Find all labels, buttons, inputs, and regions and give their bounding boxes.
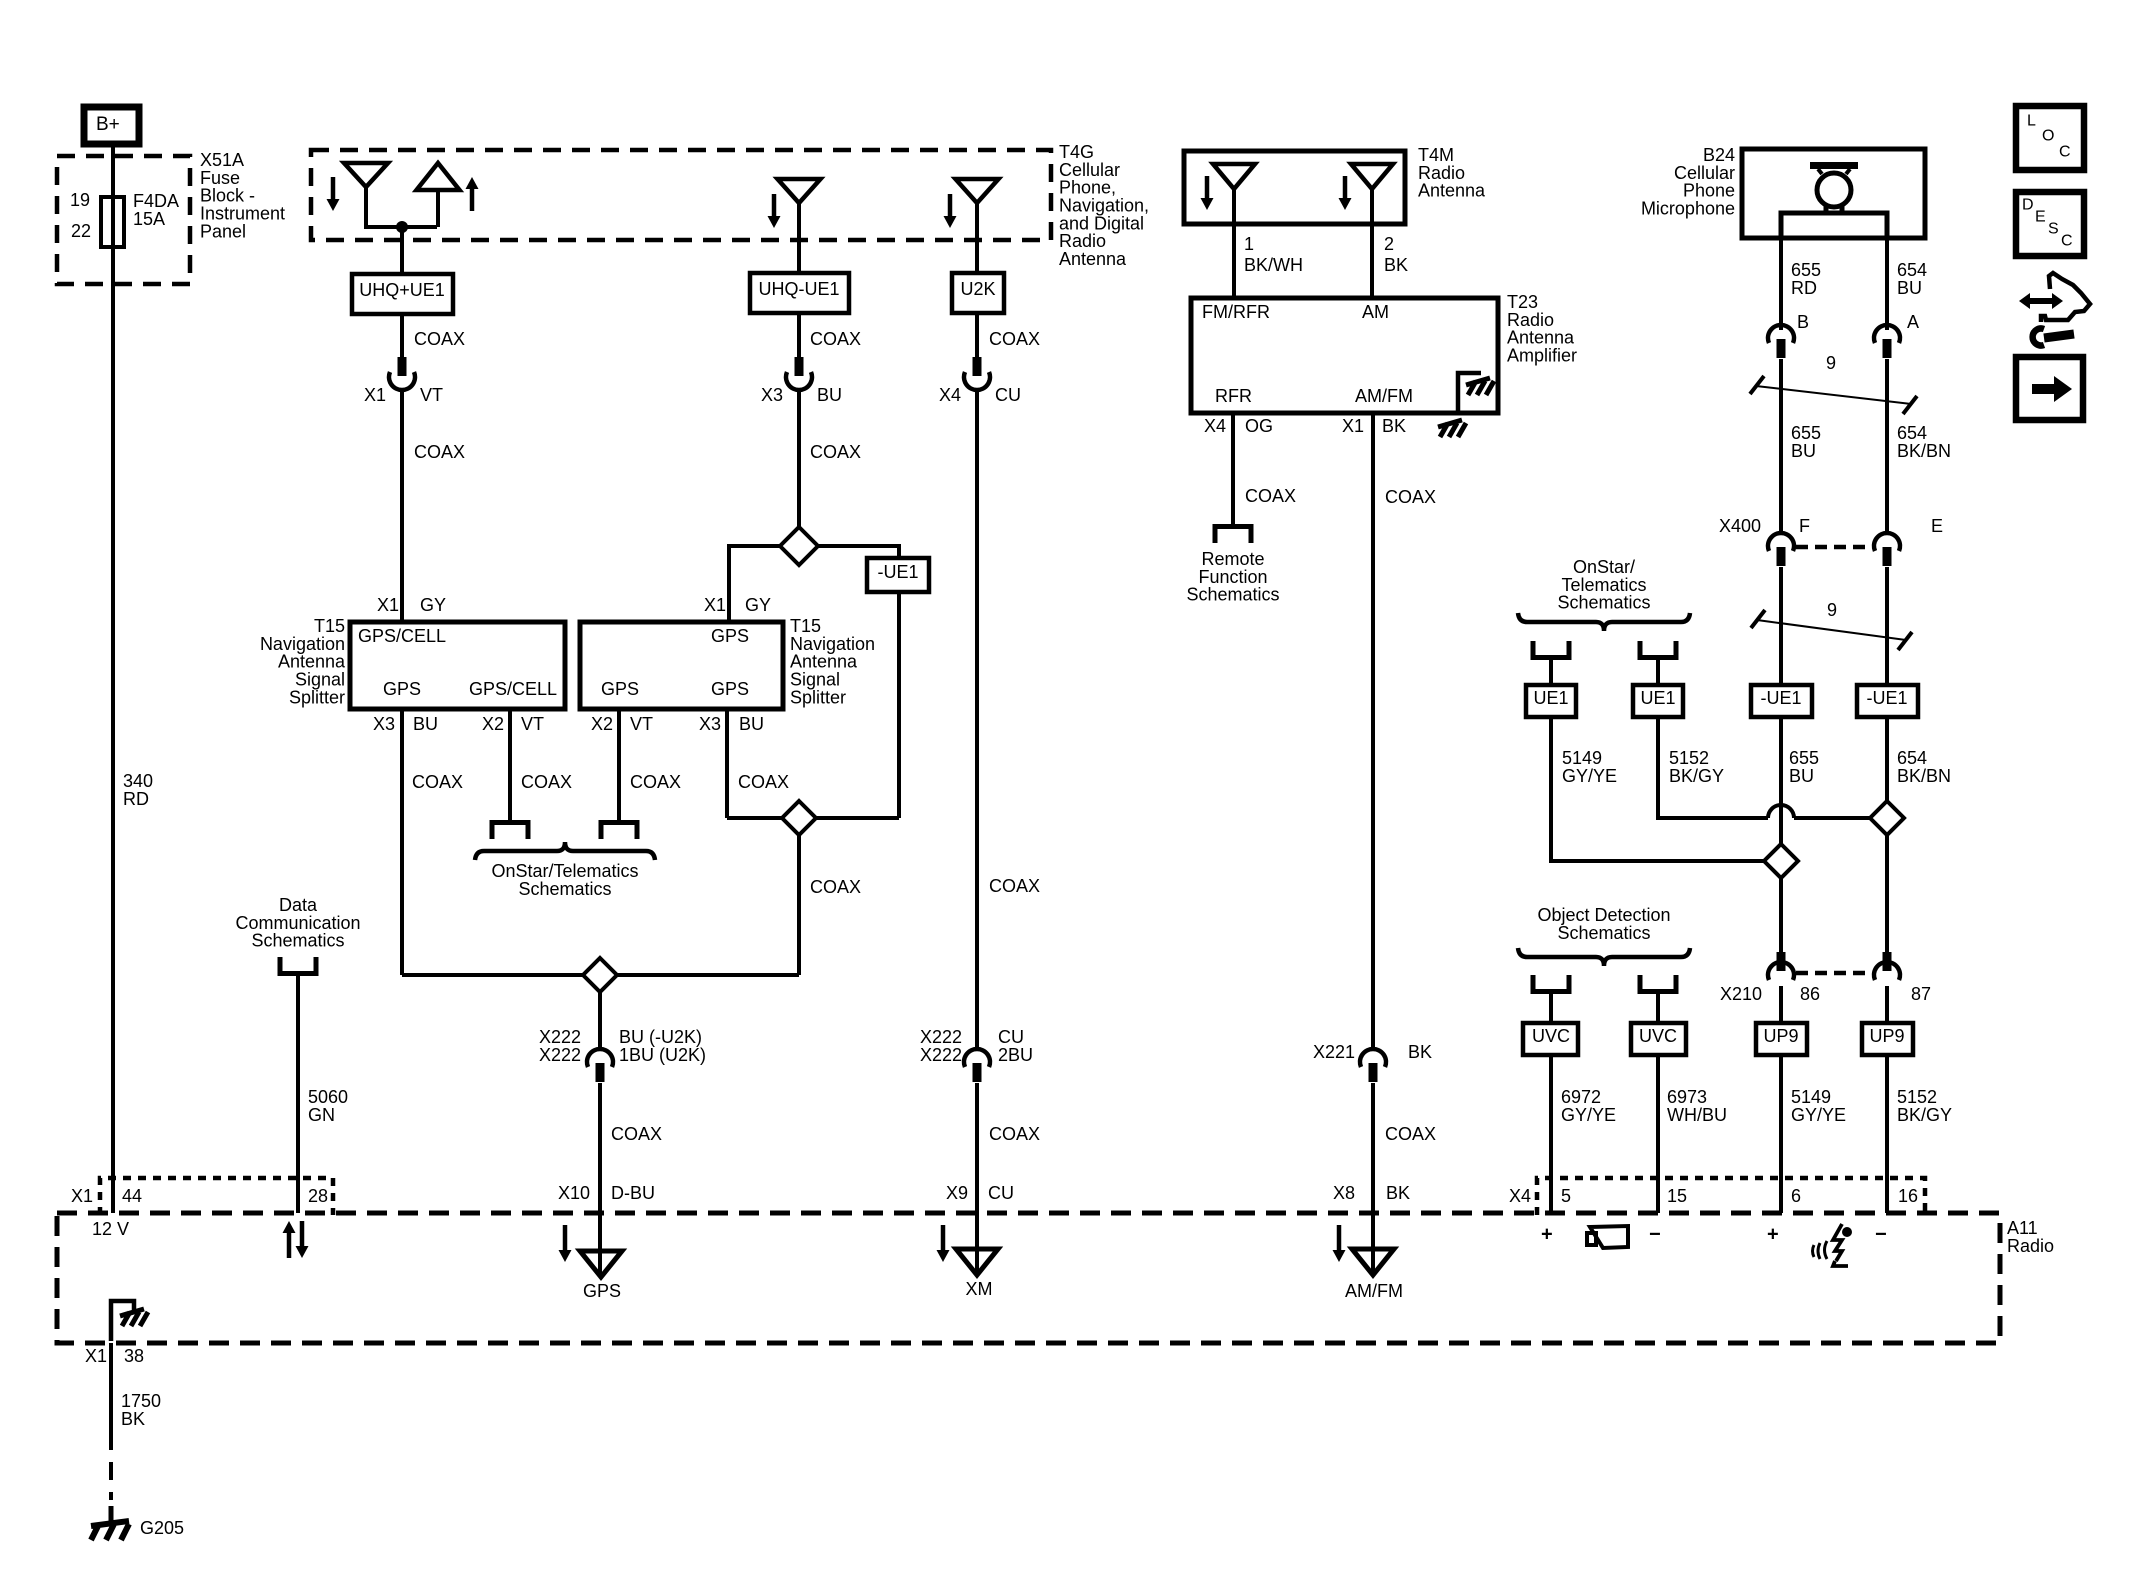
- svg-text:COAX: COAX: [414, 329, 465, 349]
- svg-text:X2: X2: [482, 714, 504, 734]
- svg-text:UP9: UP9: [1869, 1026, 1904, 1046]
- svg-text:BU: BU: [817, 385, 842, 405]
- wire COAX UHQ+UE1 lower: [402, 390, 465, 622]
- wire GPS drop to connector: [598, 992, 602, 1050]
- connector option label -UE1 (first): [1751, 685, 1812, 717]
- inline connector X222 (GPS): [587, 1049, 613, 1082]
- svg-text:38: 38: [124, 1346, 144, 1366]
- offpage stub (OnStar UE1 left): [1533, 641, 1569, 658]
- svg-text:BK/BN: BK/BN: [1897, 766, 1951, 786]
- svg-text:BU: BU: [413, 714, 438, 734]
- transmit arrow (T4G): [466, 177, 479, 211]
- svg-text:F: F: [1799, 516, 1810, 536]
- svg-text:BK/BN: BK/BN: [1897, 441, 1951, 461]
- svg-text:+: +: [1541, 1224, 1553, 1246]
- svg-text:D: D: [2022, 197, 2034, 214]
- svg-text:D-BU: D-BU: [611, 1183, 655, 1203]
- svg-text:GY: GY: [745, 595, 771, 615]
- svg-text:COAX: COAX: [611, 1124, 662, 1144]
- svg-text:UE1: UE1: [1533, 688, 1568, 708]
- pin label X400 F E: [1719, 516, 1943, 536]
- svg-text:COAX: COAX: [989, 329, 1040, 349]
- svg-text:E: E: [2035, 209, 2046, 226]
- svg-text:BK: BK: [1382, 416, 1406, 436]
- svg-text:X3: X3: [699, 714, 721, 734]
- wire 655 to UP9: [1779, 986, 1783, 1023]
- amplifier T23 (Radio Antenna Amplifier): [1191, 292, 1577, 413]
- offpage stub (GPS to OnStar): [601, 823, 637, 840]
- svg-text:OG: OG: [1245, 416, 1273, 436]
- svg-text:U2K: U2K: [960, 279, 995, 299]
- svg-text:S: S: [2048, 221, 2059, 238]
- svg-text:COAX: COAX: [414, 442, 465, 462]
- svg-text:X3: X3: [373, 714, 395, 734]
- wire 655 RD: [1781, 238, 1821, 330]
- svg-text:BK/WH: BK/WH: [1244, 255, 1303, 275]
- connector option label UP9 (second): [1862, 1023, 1913, 1055]
- svg-text:BK: BK: [1408, 1042, 1432, 1062]
- offpage stub (object detection left): [1533, 975, 1569, 992]
- svg-text:L: L: [2027, 113, 2036, 130]
- label 12 V: [92, 1219, 129, 1239]
- svg-text:1: 1: [1244, 234, 1254, 254]
- svg-text:1BU (U2K): 1BU (U2K): [619, 1045, 706, 1065]
- svg-text:X1: X1: [1342, 416, 1364, 436]
- wire split to -UE1 branch: [818, 546, 899, 559]
- connector option label UVC (first): [1523, 1023, 1578, 1055]
- wire bus H1: [727, 816, 899, 820]
- voice icon (radio): [1813, 1224, 1853, 1266]
- junction diamond (H1): [782, 801, 816, 835]
- svg-text:UHQ-UE1: UHQ-UE1: [758, 279, 839, 299]
- pin label 1 BK/WH: [1244, 234, 1303, 275]
- brace OnStar/Telematics (left): [475, 842, 655, 860]
- wire 5149 GY/YE (UE1): [1551, 717, 1764, 861]
- connector option label UHQ-UE1: [750, 273, 849, 313]
- svg-text:AM/FM: AM/FM: [1355, 386, 1413, 406]
- wire COAX H1 drop: [799, 835, 861, 975]
- svg-text:X9: X9: [946, 1183, 968, 1203]
- fuse block X51A (dashed outline): [57, 150, 285, 284]
- svg-text:19: 19: [70, 190, 90, 210]
- brace OnStar/Telematics (right): [1518, 613, 1690, 631]
- svg-text:X4: X4: [939, 385, 961, 405]
- wire COAX U2K run: [977, 390, 1040, 1050]
- svg-text:X1: X1: [364, 385, 386, 405]
- svg-text:44: 44: [122, 1186, 142, 1206]
- svg-text:GPS: GPS: [383, 679, 421, 699]
- svg-text:-UE1: -UE1: [1760, 688, 1801, 708]
- wire B+ feed to fuse: [111, 144, 115, 247]
- pin label 2 BK: [1384, 234, 1408, 275]
- wire split to splitter X1: [729, 546, 780, 622]
- pin label X221 BK: [1313, 1042, 1432, 1062]
- svg-text:G205: G205: [140, 1518, 184, 1538]
- svg-text:X4: X4: [1509, 1186, 1531, 1206]
- minus label (pin 15): [1649, 1224, 1661, 1246]
- wire 654 to UP9: [1885, 986, 1889, 1023]
- label OnStar/Telematics Schematics (left): [491, 861, 638, 899]
- wire 654 BK/BN upper: [1887, 359, 1951, 534]
- pin X10 D-BU label: [558, 1183, 655, 1203]
- svg-text:Splitter: Splitter: [790, 687, 846, 707]
- svg-text:AM/FM: AM/FM: [1345, 1281, 1403, 1301]
- offpage stub (OnStar UE1 right): [1640, 641, 1676, 658]
- svg-text:2: 2: [1384, 234, 1394, 254]
- svg-text:Radio: Radio: [2007, 1236, 2054, 1256]
- svg-text:GPS: GPS: [711, 679, 749, 699]
- junction diamond (UHQ-UE1 split): [780, 527, 818, 565]
- label Object Detection Schematics: [1537, 905, 1670, 943]
- wire OnStar stub 2: [1656, 660, 1660, 685]
- svg-text:VT: VT: [420, 385, 443, 405]
- svg-text:BU: BU: [1897, 278, 1922, 298]
- svg-text:GPS/CELL: GPS/CELL: [469, 679, 557, 699]
- svg-text:UP9: UP9: [1763, 1026, 1798, 1046]
- XM arrow: [937, 1225, 950, 1262]
- svg-text:FM/RFR: FM/RFR: [1202, 302, 1270, 322]
- inline connector X1 VT: [364, 357, 443, 405]
- plus label (pin 5): [1541, 1224, 1553, 1246]
- svg-text:BK: BK: [1384, 255, 1408, 275]
- svg-text:X3: X3: [761, 385, 783, 405]
- svg-text:CU: CU: [988, 1183, 1014, 1203]
- wire 654 BK/BN mid: [1887, 717, 1951, 801]
- svg-text:BK/GY: BK/GY: [1669, 766, 1724, 786]
- connector option label UE1 (first): [1526, 685, 1576, 717]
- pin label X1 GY (right splitter): [704, 595, 771, 615]
- offpage stub (remote function): [1215, 527, 1251, 544]
- svg-text:GPS: GPS: [583, 1281, 621, 1301]
- GPS arrow: [559, 1225, 572, 1262]
- inline connector X3 BU: [761, 357, 842, 405]
- svg-text:XM: XM: [966, 1279, 993, 1299]
- svg-text:COAX: COAX: [810, 329, 861, 349]
- inline connector X210-87: [1874, 952, 1900, 980]
- svg-text:Panel: Panel: [200, 221, 246, 241]
- svg-text:Amplifier: Amplifier: [1507, 346, 1577, 366]
- svg-text:Antenna: Antenna: [1059, 249, 1127, 269]
- receive antenna (T4G left): [344, 163, 437, 227]
- svg-text:C: C: [2059, 144, 2071, 161]
- receive arrow (T4G left): [327, 177, 340, 211]
- connector block X1 (radio, dotted): [71, 1178, 333, 1215]
- brace Object Detection: [1518, 948, 1690, 966]
- inline connector B: [1768, 325, 1794, 358]
- svg-text:BU: BU: [1791, 441, 1816, 461]
- svg-text:UHQ+UE1: UHQ+UE1: [359, 280, 445, 300]
- pin label X210 86 87: [1720, 984, 1931, 1004]
- offpage stub (data communication): [280, 957, 316, 974]
- svg-text:GY: GY: [420, 595, 446, 615]
- wire COAX right splitter GPS out left: [619, 709, 681, 820]
- svg-text:Antenna: Antenna: [1418, 181, 1486, 201]
- antenna element 2 (T4M): [1351, 164, 1393, 298]
- wire COAX UHQ-UE1 upper: [799, 313, 861, 358]
- wire 655 BU mid: [1781, 717, 1819, 844]
- svg-text:RD: RD: [1791, 278, 1817, 298]
- svg-text:Schematics: Schematics: [1557, 593, 1650, 613]
- data link arrows (pin 28): [283, 1221, 309, 1258]
- pin 15 label: [1667, 1186, 1687, 1206]
- splitter T15 left (Navigation Antenna Signal Splitter): [260, 616, 565, 709]
- pin 44 label: [122, 1186, 142, 1206]
- svg-text:COAX: COAX: [521, 772, 572, 792]
- svg-text:COAX: COAX: [630, 772, 681, 792]
- receive antenna (T4G middle, UHQ-UE1): [778, 179, 821, 273]
- svg-text:X10: X10: [558, 1183, 590, 1203]
- inline connector A: [1874, 325, 1900, 358]
- inline connector X400-E: [1874, 533, 1900, 566]
- wire 340 RD (battery feed to radio pin 44): [113, 247, 153, 1213]
- svg-text:X1: X1: [71, 1186, 93, 1206]
- antenna assembly T4G (dashed outline): [311, 142, 1149, 269]
- svg-text:X400: X400: [1719, 516, 1761, 536]
- svg-text:UVC: UVC: [1532, 1026, 1570, 1046]
- connector block X4 (radio, dotted): [1509, 1178, 1925, 1215]
- wire COAX XM to radio: [977, 1083, 1040, 1213]
- svg-text:9: 9: [1827, 600, 1837, 620]
- svg-text:UE1: UE1: [1640, 688, 1675, 708]
- connector option label -UE1 (second): [1857, 685, 1918, 717]
- antenna T4M (Radio Antenna): [1184, 145, 1486, 224]
- pin 5 label: [1561, 1186, 1571, 1206]
- wire COAX UHQ+UE1 upper: [402, 314, 465, 358]
- svg-text:Splitter: Splitter: [289, 687, 345, 707]
- svg-text:BK: BK: [1386, 1183, 1410, 1203]
- GPS antenna symbol (radio): [580, 1213, 622, 1301]
- svg-text:O: O: [2042, 128, 2054, 145]
- connector option label -UE1 (branch): [867, 558, 929, 592]
- inline connector X222 (XM): [964, 1049, 990, 1082]
- svg-text:COAX: COAX: [1385, 487, 1436, 507]
- pin label X3 BU (right splitter): [699, 714, 764, 734]
- antenna element 1 (T4M): [1213, 164, 1255, 298]
- svg-text:GY/YE: GY/YE: [1562, 766, 1617, 786]
- svg-text:VT: VT: [521, 714, 544, 734]
- svg-text:B+: B+: [96, 114, 120, 135]
- svg-text:COAX: COAX: [412, 772, 463, 792]
- wire COAX left splitter GPS out: [402, 709, 463, 975]
- svg-text:−: −: [1875, 1224, 1887, 1246]
- junction diamond (654 net): [1870, 801, 1904, 835]
- wire COAX U2K upper: [977, 313, 1040, 358]
- pin 16 label: [1898, 1186, 1918, 1206]
- splitter T15 right (Navigation Antenna Signal Splitter): [580, 616, 875, 709]
- pin 28 label: [308, 1186, 328, 1206]
- svg-text:COAX: COAX: [810, 442, 861, 462]
- junction diamond (655 net): [1764, 844, 1798, 878]
- wire bus H2: [402, 973, 799, 977]
- inline connector X210-86: [1768, 952, 1794, 980]
- wire COAX GPS to radio: [600, 1083, 662, 1213]
- svg-text:VT: VT: [630, 714, 653, 734]
- inline connector X400-F: [1768, 533, 1794, 566]
- connector option label U2K: [952, 273, 1004, 313]
- svg-text:86: 86: [1800, 984, 1820, 1004]
- legend icon service (double arrow, outline, wrench): [2019, 273, 2090, 346]
- svg-text:GPS/CELL: GPS/CELL: [358, 626, 446, 646]
- label Remote Function Schematics: [1186, 549, 1279, 605]
- svg-text:X222: X222: [539, 1045, 581, 1065]
- pin labels X222 (XM pair): [920, 1027, 1033, 1065]
- wire 655 to X210: [1779, 878, 1783, 952]
- svg-text:UVC: UVC: [1639, 1026, 1677, 1046]
- pin labels X222 (GPS pair): [539, 1027, 706, 1065]
- svg-text:X1: X1: [704, 595, 726, 615]
- wire COAX UHQ-UE1 lower: [799, 390, 861, 528]
- pin label B: [1797, 312, 1809, 332]
- svg-text:COAX: COAX: [1245, 486, 1296, 506]
- svg-text:Schematics: Schematics: [251, 931, 344, 951]
- arrow (T4M element 2): [1339, 176, 1352, 210]
- svg-text:X1: X1: [377, 595, 399, 615]
- wire 5149 GY/YE to radio: [1781, 1055, 1846, 1213]
- plus label (pin 6): [1767, 1224, 1779, 1246]
- pin label X3 BU (left splitter): [373, 714, 438, 734]
- wire UVC stub 2: [1656, 994, 1660, 1023]
- XM antenna symbol (radio): [956, 1213, 998, 1299]
- svg-text:A: A: [1907, 312, 1919, 332]
- svg-text:15A: 15A: [133, 209, 165, 229]
- svg-text:6: 6: [1791, 1186, 1801, 1206]
- svg-text:X2: X2: [591, 714, 613, 734]
- wire 654 BK/BN lower: [1885, 567, 1889, 685]
- wire COAX left splitter GPS/CELL out: [510, 709, 572, 820]
- svg-text:COAX: COAX: [810, 877, 861, 897]
- label Data Communication Schematics: [235, 895, 360, 951]
- receive arrow (T4G right): [944, 194, 957, 228]
- wire 5152 BK/GY to radio: [1887, 1055, 1952, 1213]
- svg-text:12 V: 12 V: [92, 1219, 129, 1239]
- svg-text:Schematics: Schematics: [1186, 585, 1279, 605]
- svg-text:22: 22: [71, 221, 91, 241]
- wire 5060 GN: [298, 976, 348, 1213]
- connector option label UHQ+UE1: [352, 274, 453, 314]
- svg-text:BK/GY: BK/GY: [1897, 1105, 1952, 1125]
- svg-text:15: 15: [1667, 1186, 1687, 1206]
- svg-text:X222: X222: [920, 1045, 962, 1065]
- microphone B24 (Cellular Phone Microphone): [1641, 145, 1925, 238]
- svg-text:X210: X210: [1720, 984, 1762, 1004]
- ground symbol (T23 case): [1438, 420, 1466, 437]
- pin 6 label: [1791, 1186, 1801, 1206]
- twisted pair marker 9 (lower): [1751, 600, 1912, 650]
- svg-text:GY/YE: GY/YE: [1561, 1105, 1616, 1125]
- svg-text:GN: GN: [308, 1105, 335, 1125]
- wire 655 BU upper: [1781, 359, 1821, 534]
- offpage stub (GPS/CELL to OnStar): [492, 823, 528, 840]
- svg-text:E: E: [1931, 516, 1943, 536]
- svg-text:CU: CU: [995, 385, 1021, 405]
- connector option label UVC (second): [1631, 1023, 1686, 1055]
- label OnStar/Telematics Schematics (right): [1557, 557, 1650, 613]
- fuse F4DA 15A: [70, 190, 179, 247]
- connector option label UE1 (second): [1633, 685, 1683, 717]
- wire AM/FM X1 BK: [1342, 413, 1436, 1050]
- svg-text:B: B: [1797, 312, 1809, 332]
- pin X8 BK label: [1333, 1183, 1410, 1203]
- AM/FM antenna symbol (radio): [1345, 1213, 1403, 1301]
- svg-text:GPS: GPS: [601, 679, 639, 699]
- svg-text:GPS: GPS: [711, 626, 749, 646]
- legend icon next-page arrow: [2016, 357, 2083, 420]
- svg-text:COAX: COAX: [738, 772, 789, 792]
- wire 654 to X210: [1885, 835, 1889, 952]
- svg-text:−: −: [1649, 1224, 1661, 1246]
- wire 655 BU lower: [1779, 567, 1783, 685]
- wire hop (5152 over 655): [1768, 805, 1870, 818]
- ground G205: [91, 1506, 184, 1540]
- AM/FM arrow: [1333, 1225, 1346, 1262]
- pin X9 CU label: [946, 1183, 1014, 1203]
- wire 5152 BK/GY (UE1): [1658, 717, 1768, 818]
- legend icon LOC: [2016, 106, 2084, 170]
- arrow (T4M element 1): [1201, 176, 1214, 210]
- svg-text:87: 87: [1911, 984, 1931, 1004]
- offpage stub (object detection right): [1640, 975, 1676, 992]
- wire -UE1 branch down: [897, 592, 901, 818]
- svg-text:COAX: COAX: [989, 1124, 1040, 1144]
- svg-text:Microphone: Microphone: [1641, 199, 1735, 219]
- svg-text:COAX: COAX: [1385, 1124, 1436, 1144]
- svg-text:Schematics: Schematics: [1557, 923, 1650, 943]
- pin label A: [1907, 312, 1919, 332]
- svg-text:Schematics: Schematics: [518, 879, 611, 899]
- wire 6972 GY/YE: [1551, 1055, 1616, 1213]
- junction diamond (H2): [583, 958, 617, 992]
- receive arrow (T4G middle): [768, 194, 781, 228]
- speaker icon (radio): [1587, 1226, 1628, 1248]
- inline connector X221: [1360, 1049, 1386, 1082]
- svg-text:9: 9: [1826, 353, 1836, 373]
- svg-text:RD: RD: [123, 789, 149, 809]
- radio A11 (dashed outline): [57, 1213, 2054, 1343]
- wire 654 BU: [1887, 238, 1927, 330]
- svg-text:16: 16: [1898, 1186, 1918, 1206]
- transmit antenna (T4G): [417, 163, 460, 227]
- svg-text:BU: BU: [1789, 766, 1814, 786]
- svg-text:GY/YE: GY/YE: [1791, 1105, 1846, 1125]
- pin label X2 VT (left splitter): [482, 714, 544, 734]
- pin label X2 VT (right splitter): [591, 714, 653, 734]
- svg-text:-UE1: -UE1: [1866, 688, 1907, 708]
- twisted pair marker 9 (upper): [1750, 353, 1917, 414]
- svg-text:X1: X1: [85, 1346, 107, 1366]
- wire X400 connector link (dashed): [1796, 545, 1872, 550]
- minus label (pin 16): [1875, 1224, 1887, 1246]
- pin label X1 38: [85, 1346, 144, 1366]
- svg-text:BU: BU: [739, 714, 764, 734]
- svg-text:C: C: [2061, 233, 2073, 250]
- wire RFR X4 OG: [1204, 413, 1296, 524]
- microphone symbol: [1781, 162, 1887, 238]
- wire X210 connector link (dashed): [1796, 971, 1872, 976]
- receive antenna (T4G right, U2K): [956, 179, 999, 273]
- wire COAX right splitter GPS out right: [727, 709, 789, 818]
- connector option label UP9 (first): [1756, 1023, 1807, 1055]
- svg-text:RFR: RFR: [1215, 386, 1252, 406]
- svg-text:AM: AM: [1362, 302, 1389, 322]
- svg-text:WH/BU: WH/BU: [1667, 1105, 1727, 1125]
- junction node (T4G antenna feed): [396, 221, 408, 233]
- svg-text:5: 5: [1561, 1186, 1571, 1206]
- svg-text:BK: BK: [121, 1409, 145, 1429]
- wire COAX AM/FM to radio: [1373, 1083, 1436, 1213]
- svg-text:X221: X221: [1313, 1042, 1355, 1062]
- svg-text:X8: X8: [1333, 1183, 1355, 1203]
- wire UVC stub 1: [1549, 994, 1553, 1023]
